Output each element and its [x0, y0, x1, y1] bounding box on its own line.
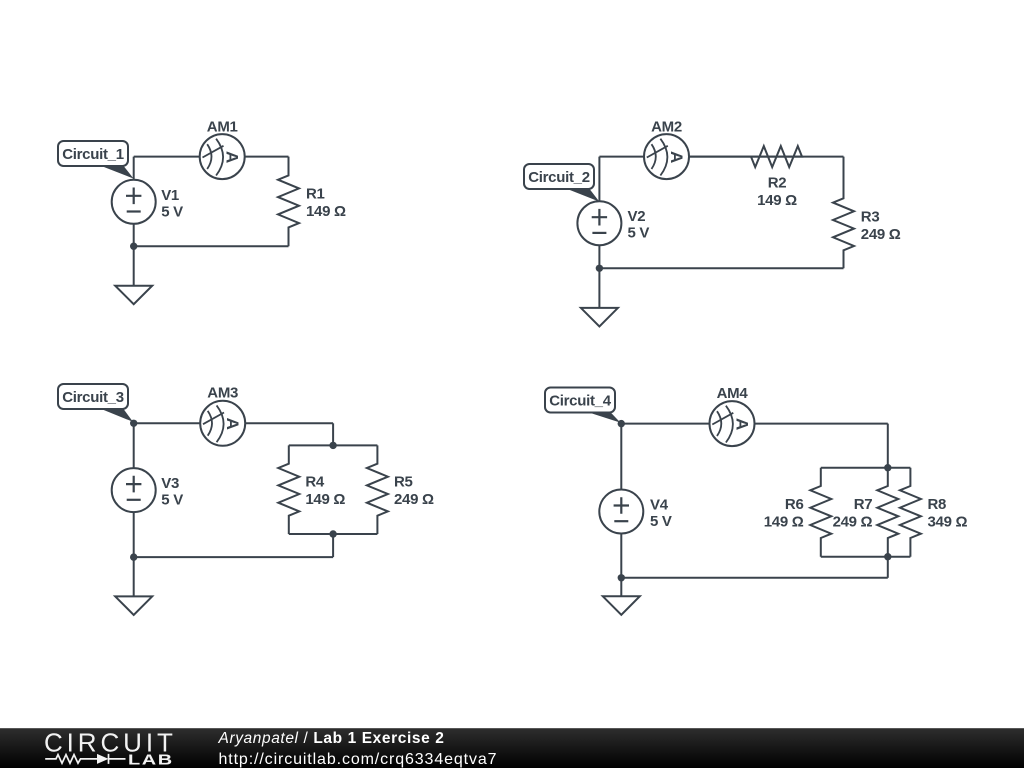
- resistor R3 249ohm: [833, 157, 901, 269]
- wire c4 right drop2: [887, 557, 889, 578]
- resistor R6 149ohm: [764, 468, 832, 557]
- circuit 4 group: [545, 385, 967, 615]
- wire c1 bottom: [134, 245, 289, 247]
- ammeter AM3: [200, 385, 245, 446]
- svg-text:Circuit_1: Circuit_1: [62, 146, 124, 163]
- resistor R1 149ohm: [278, 157, 346, 247]
- junction node c3 bottom-left: [130, 553, 137, 560]
- ammeter AM1: [200, 119, 245, 180]
- svg-text:V3: V3: [161, 475, 179, 492]
- svg-text:249 Ω: 249 Ω: [861, 226, 901, 243]
- circuit 3 group: [58, 384, 434, 615]
- svg-text:Circuit_4: Circuit_4: [549, 393, 611, 410]
- svg-text:149 Ω: 149 Ω: [305, 491, 345, 508]
- svg-text:AM1: AM1: [207, 119, 238, 136]
- junction node c4 bottom-left: [618, 574, 625, 581]
- wire c1 left vertical: [133, 157, 135, 247]
- resistor R7 249ohm: [833, 468, 899, 557]
- svg-text:Aryanpatel / Lab 1 Exercise 2: Aryanpatel / Lab 1 Exercise 2: [218, 730, 445, 747]
- svg-text:R4: R4: [305, 474, 325, 491]
- wire c4 right drop: [887, 424, 889, 468]
- svg-text:V4: V4: [650, 497, 669, 514]
- net label Circuit_4: [545, 388, 620, 423]
- resistor R8 349ohm: [900, 468, 968, 557]
- svg-text:5 V: 5 V: [161, 492, 183, 509]
- wire c4 parallel top bus: [821, 467, 911, 469]
- junction node c4 parallel bottom: [884, 553, 891, 560]
- svg-text:149 Ω: 149 Ω: [306, 203, 346, 220]
- svg-text:AM4: AM4: [717, 385, 749, 402]
- ground 3: [115, 557, 152, 615]
- svg-text:5 V: 5 V: [161, 203, 183, 220]
- wire c3 right drop: [332, 423, 334, 445]
- junction node c3 top-left: [130, 420, 137, 427]
- wire c2 top: [599, 156, 843, 158]
- wire c1 top: [134, 156, 289, 158]
- voltage source V3: [112, 468, 184, 512]
- wire c3 parallel top bus: [289, 444, 378, 446]
- ammeter AM2: [644, 119, 689, 180]
- svg-text:AM3: AM3: [207, 385, 238, 402]
- svg-text:R8: R8: [928, 496, 947, 513]
- svg-text:A: A: [223, 418, 242, 430]
- svg-text:A: A: [732, 418, 751, 430]
- svg-text:A: A: [223, 151, 242, 163]
- svg-text:R1: R1: [306, 185, 325, 202]
- svg-text:A: A: [667, 151, 686, 163]
- svg-text:249 Ω: 249 Ω: [833, 514, 873, 531]
- wire c3 top: [134, 422, 333, 424]
- net label Circuit_3: [58, 384, 133, 422]
- ground 1: [115, 246, 152, 304]
- svg-text:LAB: LAB: [128, 751, 174, 768]
- voltage source V2: [577, 201, 649, 245]
- net label Circuit_1: [58, 141, 134, 179]
- net label Circuit_2: [524, 164, 599, 202]
- ground 2: [581, 268, 618, 326]
- ground 4: [603, 578, 640, 615]
- resistor R4 149ohm: [278, 445, 345, 534]
- circuit 1 group: [58, 119, 346, 305]
- svg-text:R5: R5: [394, 474, 413, 491]
- wire c3 mid drop: [332, 534, 334, 557]
- voltage source V1: [112, 180, 183, 224]
- svg-text:R2: R2: [768, 175, 787, 192]
- wire c4 top: [621, 423, 888, 425]
- resistor R5 249ohm: [367, 445, 434, 534]
- svg-text:V1: V1: [161, 187, 179, 204]
- junction node c4 top-left: [618, 420, 625, 427]
- svg-text:http://circuitlab.com/crq6334e: http://circuitlab.com/crq6334eqtva7: [219, 751, 498, 768]
- wire c4 left vertical: [620, 424, 622, 578]
- wire c4 bottom: [621, 577, 888, 579]
- footer bar: [0, 728, 1024, 768]
- svg-text:Circuit_2: Circuit_2: [528, 169, 590, 186]
- resistor R2 149ohm: [689, 146, 802, 209]
- svg-text:349 Ω: 349 Ω: [928, 514, 968, 531]
- svg-text:5 V: 5 V: [650, 513, 672, 530]
- wire c3 bottom: [134, 556, 333, 558]
- logo resistor-diode squiggle: [45, 754, 125, 764]
- svg-text:Circuit_3: Circuit_3: [62, 389, 124, 406]
- svg-text:R3: R3: [861, 208, 880, 225]
- svg-text:249 Ω: 249 Ω: [394, 491, 434, 508]
- wire c3 left vertical: [133, 423, 135, 557]
- svg-text:R7: R7: [854, 496, 873, 513]
- svg-text:R6: R6: [785, 496, 804, 513]
- junction node c3 parallel top: [329, 442, 336, 449]
- junction node c2 bottom: [596, 265, 603, 272]
- wire c3 parallel bottom bus: [289, 533, 378, 535]
- wire c4 parallel bottom bus: [821, 556, 911, 558]
- circuit 2 group: [524, 119, 901, 327]
- svg-text:V2: V2: [628, 208, 646, 225]
- junction node c4 parallel top: [884, 464, 891, 471]
- junction node c3 parallel bottom: [329, 530, 336, 537]
- svg-text:AM2: AM2: [651, 119, 682, 136]
- voltage source V4: [599, 490, 672, 534]
- wire c2 left vertical: [598, 157, 600, 269]
- svg-text:149 Ω: 149 Ω: [764, 514, 804, 531]
- logo wordmark LAB: [128, 751, 174, 768]
- junction node c1 bottom: [130, 243, 137, 250]
- ammeter AM4: [710, 385, 755, 446]
- svg-text:5 V: 5 V: [628, 225, 650, 242]
- svg-text:149 Ω: 149 Ω: [757, 192, 797, 209]
- wire c2 bottom: [599, 267, 843, 269]
